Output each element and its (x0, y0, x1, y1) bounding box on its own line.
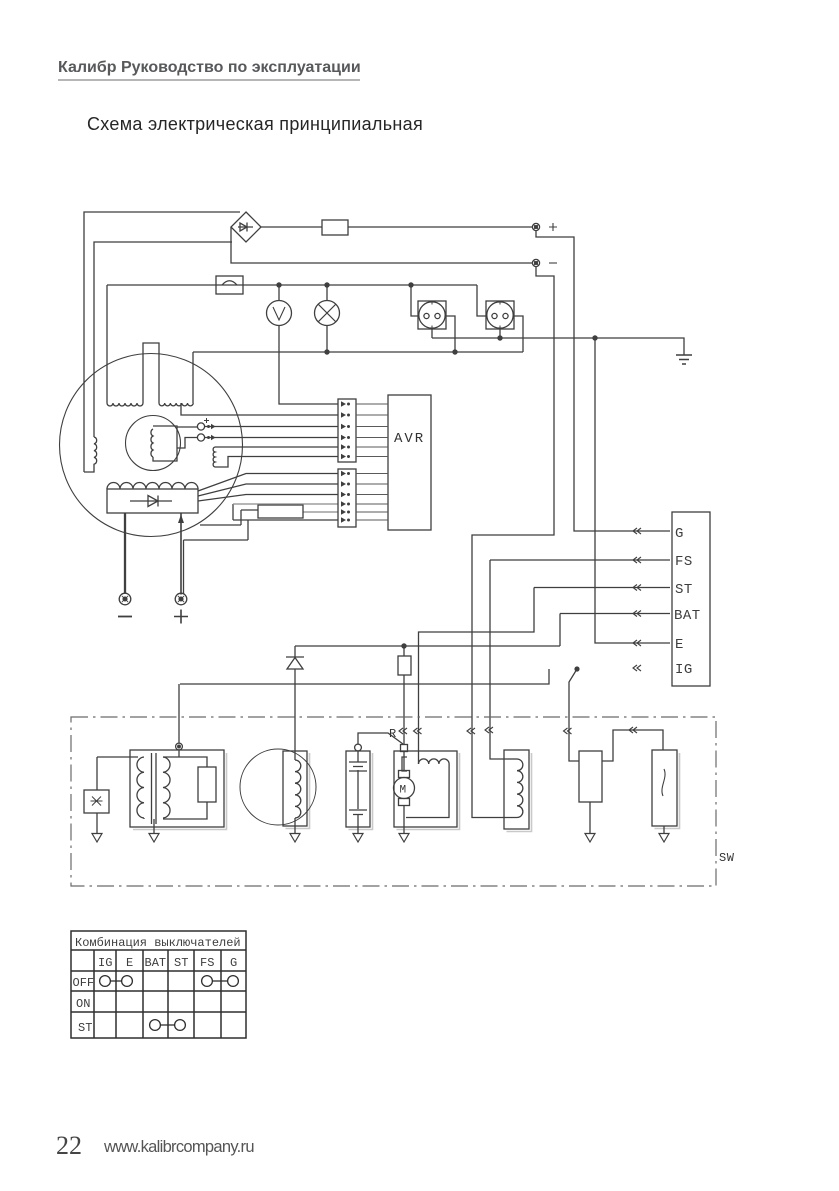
svg-text:E: E (675, 637, 684, 653)
svg-text:ON: ON (76, 997, 90, 1011)
svg-text:ST: ST (78, 1021, 92, 1035)
svg-text:ST: ST (675, 582, 693, 598)
svg-text:G: G (675, 526, 684, 542)
svg-text:Комбинация выключателей: Комбинация выключателей (75, 936, 241, 950)
svg-text:Схема электрическая принципиал: Схема электрическая принципиальная (87, 114, 423, 134)
svg-text:R: R (389, 727, 397, 741)
svg-text:BAT: BAT (674, 608, 701, 624)
svg-text:www.kalibrcompany.ru: www.kalibrcompany.ru (103, 1138, 254, 1156)
svg-text:BAT: BAT (145, 956, 167, 970)
svg-text:Калибр Руководство по эксплуат: Калибр Руководство по эксплуатации (58, 59, 361, 76)
svg-text:FS: FS (200, 956, 214, 970)
svg-text:M: M (400, 785, 407, 797)
svg-text:IG: IG (675, 662, 693, 678)
svg-text:OFF: OFF (73, 976, 95, 990)
svg-text:SW: SW (719, 851, 735, 865)
svg-text:G: G (230, 956, 237, 970)
svg-text:E: E (126, 956, 133, 970)
svg-text:IG: IG (98, 956, 112, 970)
svg-text:FS: FS (675, 554, 693, 570)
svg-text:22: 22 (56, 1131, 82, 1160)
svg-text:ST: ST (174, 956, 188, 970)
svg-text:AVR: AVR (394, 431, 425, 447)
